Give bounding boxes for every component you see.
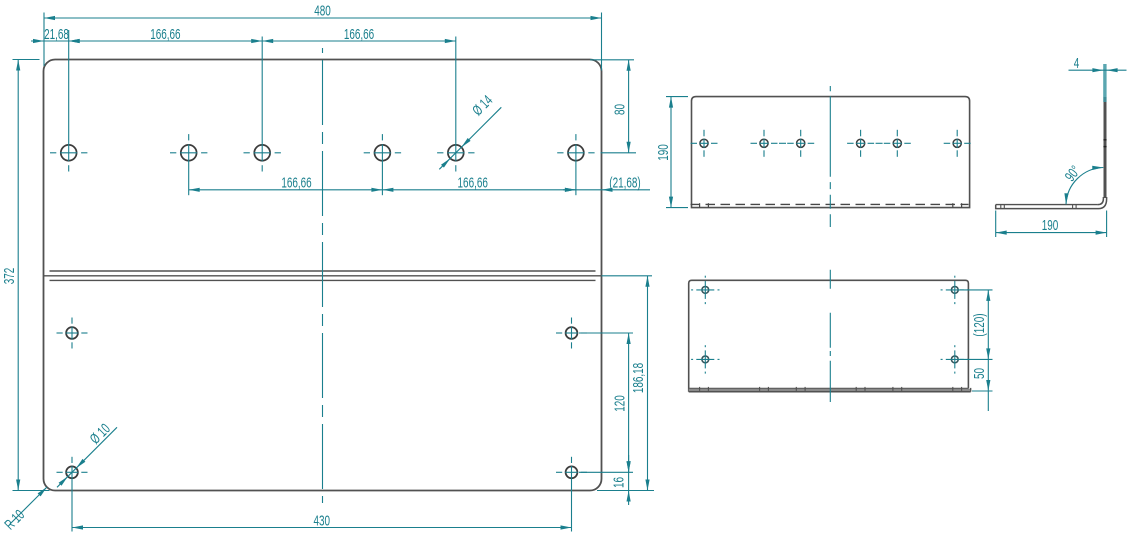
L view bend + bottom leg <box>996 197 1107 209</box>
bottom view hole 2 <box>941 276 969 304</box>
dimension 166,66 middle second <box>382 175 576 192</box>
leader diameter 10 <box>57 420 117 487</box>
top view dash between holes 2-3 <box>779 142 786 144</box>
top view outline <box>692 97 970 208</box>
dimension 166,66 top second <box>262 26 456 43</box>
svg-text:166,66: 166,66 <box>344 26 374 42</box>
top view hole 3 <box>787 130 814 157</box>
bottom view hidden hole ticks <box>700 387 962 391</box>
hole C1 (D10) main view <box>57 457 88 532</box>
bend tangent line lower <box>50 279 596 281</box>
svg-text:166,66: 166,66 <box>150 26 180 42</box>
dimension 16 right <box>579 455 633 505</box>
hole B2 (D10) main view <box>556 318 587 349</box>
svg-text:(120): (120) <box>971 313 987 336</box>
hole A2 (D14) main view <box>170 134 207 195</box>
svg-text:166,66: 166,66 <box>458 175 488 191</box>
svg-text:190: 190 <box>1042 217 1059 233</box>
bottom view face bottom edge <box>689 387 969 389</box>
top view hole 1 <box>691 130 718 157</box>
svg-text:4: 4 <box>1074 55 1080 71</box>
top view hole 2 <box>751 130 778 157</box>
bottom view hole 3 <box>691 345 719 373</box>
dimension 4 thickness <box>1069 55 1127 102</box>
dimension 190 top view <box>655 97 688 208</box>
hole B1 (D10) main view <box>57 318 88 349</box>
svg-text:430: 430 <box>314 512 331 528</box>
svg-text:480: 480 <box>314 3 331 19</box>
top view bend hidden line <box>691 203 969 205</box>
hole A5 (D14) main view <box>437 37 474 172</box>
svg-text:16: 16 <box>610 477 626 488</box>
hole A6 (D14) main view <box>557 134 594 195</box>
svg-text:(21,68): (21,68) <box>609 175 640 191</box>
L view leg top line <box>996 204 1098 206</box>
L view hole ticks on leg <box>1001 205 1076 209</box>
top view center line <box>829 86 831 227</box>
top view hole 6 <box>944 130 971 157</box>
dimension 372 left <box>1 60 49 491</box>
svg-text:190: 190 <box>655 144 671 161</box>
svg-text:186,18: 186,18 <box>630 363 646 393</box>
dimension 90 degrees <box>1062 163 1104 205</box>
center line main view <box>322 48 324 503</box>
dimension 190 L view <box>996 211 1107 238</box>
top view dash between holes 4-5 <box>876 142 883 144</box>
dimension 120 right <box>579 333 633 472</box>
top view hidden hole tick left <box>700 203 709 207</box>
svg-text:80: 80 <box>611 104 627 115</box>
hole A1 (D14) main view <box>50 30 87 172</box>
dimension 166,66 middle first <box>189 175 383 192</box>
svg-text:50: 50 <box>971 368 987 379</box>
dimension 80 right <box>590 60 636 153</box>
bottom view hole 4 <box>941 345 969 373</box>
hole A3 (D14) main view <box>244 37 281 172</box>
dimension 430 bottom <box>72 512 572 529</box>
hole A4 (D14) main view <box>364 134 401 195</box>
dimension 21,68 top-left <box>31 26 83 43</box>
dimension (21,68) middle right <box>563 175 650 192</box>
bottom view hole 1 <box>691 276 719 304</box>
svg-text:21,68: 21,68 <box>44 26 69 42</box>
dimension 186,18 right <box>597 276 654 491</box>
top view hole 4 <box>847 130 874 157</box>
top view hole 5 <box>884 130 911 157</box>
svg-text:372: 372 <box>1 268 17 285</box>
hole C2 (D10) main view <box>556 457 587 532</box>
leader radius 10 <box>1 487 47 533</box>
dimension 50 bottom view <box>971 359 992 411</box>
top view hidden hole tick right <box>953 203 962 207</box>
dimension 480 top <box>44 3 602 71</box>
bottom view center line <box>829 270 831 402</box>
bottom view outline <box>689 280 969 391</box>
svg-text:120: 120 <box>611 395 627 412</box>
L view vertical leg <box>1104 97 1107 198</box>
dimension (120) bottom view <box>960 290 993 360</box>
svg-text:166,66: 166,66 <box>281 175 311 191</box>
leader diameter 14 <box>439 92 501 169</box>
bend tangent line upper <box>50 270 596 272</box>
bend middle line <box>44 275 602 277</box>
dimension 166,66 top first <box>69 26 263 43</box>
L view hidden hole dashes <box>1103 140 1106 147</box>
bottom view leg bottom edge <box>689 388 971 392</box>
plate outline (main view 480x372) <box>44 60 602 491</box>
